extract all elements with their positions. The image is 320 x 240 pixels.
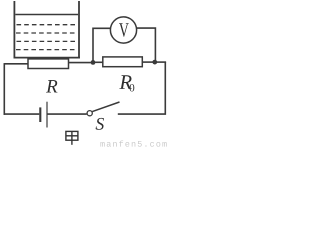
node B junction dot bbox=[152, 60, 157, 65]
container right wall bbox=[78, 1, 80, 59]
voltmeter circle bbox=[110, 17, 136, 43]
battery negative plate (short thick) bbox=[39, 107, 41, 122]
liquid dashed level 3 bbox=[17, 40, 78, 42]
liquid dashed level 2 bbox=[16, 32, 78, 34]
wire: bottom left to battery bbox=[4, 113, 40, 115]
switch pivot circle bbox=[87, 111, 92, 116]
wire: left vertical bbox=[3, 63, 5, 115]
wire: R0 right lead to node B bbox=[142, 61, 155, 63]
resistor R label bbox=[46, 80, 57, 93]
wire: switch to bottom right corner and up right side bbox=[118, 62, 166, 114]
liquid surface line bbox=[15, 14, 78, 16]
figure label 甲 (drawn strokes) bbox=[66, 131, 78, 144]
switch lever bbox=[92, 102, 119, 112]
watermark manfen5.com bbox=[100, 140, 166, 146]
wire: R right lead to node A bbox=[69, 62, 94, 64]
voltmeter V label bbox=[119, 23, 129, 37]
container bottom bbox=[14, 57, 80, 59]
resistor R0 box bbox=[103, 57, 143, 67]
wire: node B to right corner bbox=[155, 61, 166, 63]
wire: voltmeter right to node B bbox=[137, 28, 156, 60]
resistor R0 label bbox=[119, 75, 131, 89]
resistor R box bbox=[28, 59, 69, 69]
wire: voltmeter branch left vertical bbox=[93, 28, 110, 62]
container left wall bbox=[13, 1, 15, 59]
wire: node A to R0 bbox=[93, 61, 103, 63]
node A junction dot bbox=[91, 60, 96, 65]
wire: battery to switch bbox=[48, 113, 87, 115]
liquid dashed level 4 bbox=[16, 49, 78, 51]
switch label S bbox=[96, 118, 104, 130]
battery positive plate (long thin) bbox=[46, 102, 48, 128]
wire: R left lead bbox=[4, 63, 28, 65]
liquid dashed level 1 bbox=[17, 24, 78, 26]
resistor R0 subscript 0 bbox=[130, 84, 135, 92]
